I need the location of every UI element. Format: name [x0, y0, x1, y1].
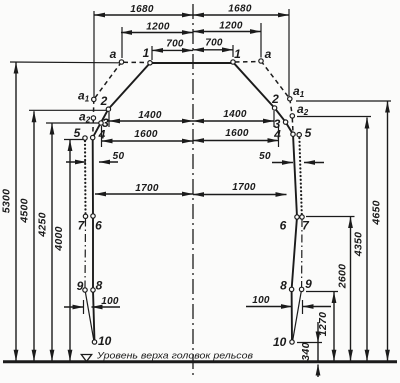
svg-text:50: 50	[113, 151, 125, 162]
svg-text:1: 1	[143, 46, 150, 60]
svg-text:4250: 4250	[37, 212, 49, 238]
svg-text:1200: 1200	[146, 22, 170, 33]
svg-text:Уровень верха головок рельсов: Уровень верха головок рельсов	[96, 351, 253, 362]
svg-text:5: 5	[305, 126, 312, 140]
svg-text:4: 4	[273, 128, 281, 142]
svg-text:1: 1	[234, 47, 241, 61]
svg-text:700: 700	[205, 38, 223, 49]
svg-text:4: 4	[98, 128, 106, 142]
svg-text:1400: 1400	[138, 110, 162, 121]
svg-text:5300: 5300	[1, 189, 13, 214]
svg-text:2600: 2600	[337, 264, 349, 290]
svg-text:4650: 4650	[371, 200, 383, 226]
svg-text:50: 50	[259, 151, 271, 162]
svg-text:340: 340	[300, 342, 312, 360]
svg-text:1270: 1270	[317, 312, 329, 337]
svg-text:10: 10	[98, 334, 112, 348]
svg-text:2: 2	[271, 92, 279, 106]
svg-text:8: 8	[280, 279, 287, 293]
svg-text:1600: 1600	[225, 128, 249, 139]
svg-text:1200: 1200	[219, 21, 243, 32]
svg-text:4000: 4000	[53, 226, 65, 252]
svg-text:100: 100	[252, 295, 270, 306]
svg-text:4500: 4500	[19, 198, 31, 224]
svg-text:a: a	[265, 47, 272, 61]
svg-text:100: 100	[101, 296, 119, 307]
svg-text:2: 2	[100, 94, 108, 108]
svg-text:6: 6	[280, 219, 287, 233]
svg-text:9: 9	[77, 279, 84, 293]
svg-text:9: 9	[305, 277, 312, 291]
svg-text:6: 6	[95, 219, 102, 233]
svg-text:10: 10	[273, 335, 287, 349]
svg-text:1680: 1680	[130, 4, 154, 15]
svg-text:1400: 1400	[223, 109, 247, 120]
svg-text:1700: 1700	[135, 183, 159, 194]
svg-text:8: 8	[96, 279, 103, 293]
svg-text:1680: 1680	[228, 4, 252, 15]
svg-text:4350: 4350	[353, 232, 365, 258]
svg-text:700: 700	[166, 39, 184, 50]
svg-text:a: a	[110, 47, 117, 61]
svg-text:5: 5	[74, 126, 81, 140]
svg-text:1700: 1700	[232, 182, 256, 193]
svg-text:1600: 1600	[134, 129, 158, 140]
